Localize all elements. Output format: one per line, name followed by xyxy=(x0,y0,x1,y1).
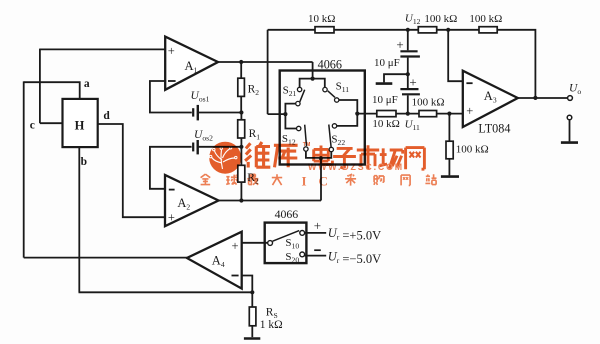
switch S21 xyxy=(297,87,301,91)
wire: 100k to feedback resistor xyxy=(437,29,479,31)
node U12 xyxy=(406,28,410,32)
wire: 100k to A3 + input xyxy=(437,113,463,115)
wire: H terminal d over to A2 + input xyxy=(98,124,165,217)
svg-text:H: H xyxy=(75,119,85,133)
wire: S12 contact to bottom common xyxy=(306,151,321,158)
node: C1/C2 ground tie xyxy=(406,72,410,76)
node: A3 inverting tap xyxy=(446,28,450,32)
switch S22 xyxy=(332,124,336,128)
svg-text:WWW.DZSC.COM: WWW.DZSC.COM xyxy=(308,162,404,172)
svg-text:LT084: LT084 xyxy=(478,121,510,135)
svg-text:R1: R1 xyxy=(249,128,261,142)
svg-text:4066: 4066 xyxy=(275,207,299,221)
svg-text:100 kΩ: 100 kΩ xyxy=(469,13,502,25)
svg-text:R2: R2 xyxy=(248,84,260,98)
node: switch left common xyxy=(283,112,287,116)
wire: A1 output rail xyxy=(218,61,313,63)
svg-text:10 μF: 10 μF xyxy=(374,57,400,69)
node U11 xyxy=(406,112,410,116)
svg-text:d: d xyxy=(103,110,110,122)
svg-text:U12: U12 xyxy=(405,12,421,26)
capacitor C1 10uF (on U12) xyxy=(407,30,409,51)
svg-text:+: + xyxy=(231,239,238,253)
wire: Uos1 to R2/R1 junction xyxy=(198,112,242,114)
node: switch right common xyxy=(355,112,359,116)
watermark: brand text 维库 xyxy=(245,142,270,168)
wire: S20 to -Ur xyxy=(305,255,327,257)
op-amp A4 (mirrored) xyxy=(187,232,242,289)
resistor 10 k (input) xyxy=(315,27,334,33)
svg-text:S20: S20 xyxy=(285,251,299,265)
svg-text:S22: S22 xyxy=(331,133,345,147)
node: Rs / feedback junction xyxy=(250,290,254,294)
wire: H terminal b riser down xyxy=(78,147,80,292)
wire: Uos2 to junction xyxy=(198,146,242,148)
resistor RS xyxy=(251,292,253,307)
resistor R2 (lower) xyxy=(240,147,242,166)
svg-text:10 μF: 10 μF xyxy=(372,94,398,106)
resistor 10 k (U11) xyxy=(377,111,396,117)
wire: top bracket to S21/S11 contacts xyxy=(300,79,325,88)
svg-text:+: + xyxy=(466,104,473,118)
svg-text:a: a xyxy=(84,78,90,90)
watermark: slogan 全球最大IC采购网站 xyxy=(201,174,211,185)
svg-text:+: + xyxy=(314,218,321,233)
svg-text:100 kΩ: 100 kΩ xyxy=(456,144,489,156)
wire: 10k to U11 node xyxy=(396,113,419,115)
svg-text:10 kΩ: 10 kΩ xyxy=(372,118,399,130)
wire: A1 inverting input to Uos1 xyxy=(150,81,192,113)
ground (output return) xyxy=(561,141,578,144)
wire: riser A2 output to S12/S22 common xyxy=(320,158,322,200)
wire: 10k to U12 node xyxy=(334,29,418,31)
svg-text:10 kΩ: 10 kΩ xyxy=(308,13,335,25)
wire: S10 to +Ur xyxy=(305,232,327,234)
switch S20 xyxy=(300,252,305,257)
svg-text:C: C xyxy=(319,174,328,189)
svg-text:Ur =+5.0V: Ur =+5.0V xyxy=(328,226,381,243)
terminal: output return xyxy=(567,115,572,120)
terminal Uo xyxy=(568,96,573,101)
capacitor Uos2 (offset source) xyxy=(192,143,194,152)
svg-text:Uo: Uo xyxy=(569,83,581,97)
watermark: brand text 电子市场网 xyxy=(314,146,333,165)
svg-text:1 kΩ: 1 kΩ xyxy=(260,319,283,331)
svg-text:I: I xyxy=(302,174,307,189)
node: feedback/output junction xyxy=(533,96,537,100)
svg-text:S10: S10 xyxy=(285,237,299,251)
svg-text:Uos1: Uos1 xyxy=(191,90,210,104)
wire: A1 output into box top node xyxy=(312,62,314,79)
svg-text:+: + xyxy=(396,37,403,52)
wire: A3 output xyxy=(518,97,568,99)
svg-text:+: + xyxy=(168,44,175,58)
svg-text:Ur =−5.0V: Ur =−5.0V xyxy=(328,249,381,266)
wire: node c riser xyxy=(39,49,41,124)
wire: S21 contact to left common node xyxy=(285,104,295,115)
node: switch top common xyxy=(311,77,315,81)
node: switch bottom common xyxy=(319,156,323,160)
switch S11 xyxy=(323,87,327,91)
label: - polarity xyxy=(314,249,321,251)
wire: A2 output rail xyxy=(219,200,322,202)
wire: A4 output left riser xyxy=(23,81,25,257)
switch S10 xyxy=(268,241,273,246)
wire: A4 + input to S10 xyxy=(242,242,268,244)
wire: A4 - input jog to Rs node xyxy=(242,276,253,293)
wire: S11 contact to right common node xyxy=(339,100,357,114)
wire: A2 inverting input to Uos2 xyxy=(150,147,192,189)
switch S12 xyxy=(297,126,301,130)
wire: right node down to S22 xyxy=(337,114,358,126)
svg-text:TM: TM xyxy=(303,142,311,148)
resistor 100 k (A3 feedback) xyxy=(479,27,497,33)
wire: A3 inverting input xyxy=(448,30,463,81)
ground (100 k) xyxy=(441,175,459,178)
wire: return terminal to ground xyxy=(569,120,571,142)
ground (capacitor common) xyxy=(376,82,393,85)
wire: node c rail to A1 + input xyxy=(40,48,165,50)
wire: S22 contact to bottom common xyxy=(321,152,331,158)
wire: H terminal a to left rail xyxy=(24,82,80,99)
resistor 100 k (U12 summing) xyxy=(418,27,436,33)
watermark: dzsc logo xyxy=(201,142,437,189)
op-amp A1 xyxy=(165,37,218,90)
node: A2 output / lower R2 junction xyxy=(239,198,243,202)
capacitor C2 10uF (on U11) xyxy=(407,74,409,88)
4066 analog switch box xyxy=(280,71,365,165)
wire: right node through box edge to 10k xyxy=(357,113,377,115)
capacitor Uos1 (offset source) xyxy=(192,108,194,116)
wire: top rail from riser to 10k xyxy=(268,29,315,31)
node: R2/R1 junction with Uos1 xyxy=(239,110,243,114)
svg-text:U11: U11 xyxy=(405,119,420,133)
4066 reference switch box xyxy=(265,223,307,264)
op-amp A2 xyxy=(165,175,219,226)
resistor 100 k (U11 summing) xyxy=(419,111,437,117)
wire: riser to 10k input rail xyxy=(267,30,269,114)
node: A3 + input tap xyxy=(447,112,451,116)
wire: left node down to S12 xyxy=(285,114,296,128)
svg-text:+: + xyxy=(409,75,416,90)
resistor R2 (upper) xyxy=(240,62,242,78)
svg-text:Uos2: Uos2 xyxy=(194,129,213,143)
svg-text:b: b xyxy=(81,156,87,168)
wire: bottom rail b to Rs node xyxy=(79,291,253,293)
wire: feedback to output drop xyxy=(497,30,535,98)
svg-text:c: c xyxy=(30,119,35,131)
op-amp A3 xyxy=(463,71,518,127)
wire: capacitor ground branch xyxy=(384,74,408,82)
resistor 100 k (to ground) xyxy=(448,114,450,142)
svg-text:+: + xyxy=(168,210,175,224)
svg-text:S11: S11 xyxy=(336,80,350,94)
node: A1 output / R2 junction xyxy=(239,60,243,64)
svg-text:S21: S21 xyxy=(283,84,297,98)
wire: left node out to feedback riser xyxy=(268,113,286,115)
wire: A4 output horizontal to apex xyxy=(24,257,187,259)
resistor R1 xyxy=(240,113,242,120)
svg-text:100 kΩ: 100 kΩ xyxy=(424,13,457,25)
block H xyxy=(63,99,98,147)
ground (RS) xyxy=(244,337,260,340)
node: R1/R2 lower junction with Uos2 xyxy=(239,145,243,149)
svg-text:100 kΩ: 100 kΩ xyxy=(412,97,445,109)
svg-text:4066: 4066 xyxy=(318,58,342,72)
wire: H terminal c stub xyxy=(40,122,63,124)
